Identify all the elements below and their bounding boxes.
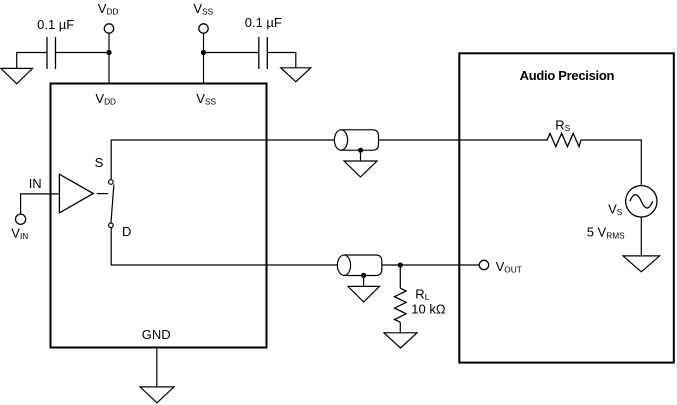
junction at RL tap: [398, 262, 403, 267]
junction on VDD: [106, 50, 111, 55]
coax cable 2 body: [344, 255, 382, 276]
wire: VIN input to buffer: [21, 194, 60, 214]
wire: C1 left plate to ground: [17, 53, 47, 69]
DUT box: [51, 84, 267, 348]
node VSS terminal circle: [199, 24, 208, 33]
ground for DUT GND pin wire: [156, 348, 158, 387]
coax cable 2 end ellipse: [337, 255, 350, 275]
resistor RL 10 kOhm: [395, 288, 407, 322]
switch D contact circle: [109, 223, 114, 228]
wire: RL to ground: [399, 322, 401, 333]
junction on VSS: [201, 50, 206, 55]
wire: VS to ground: [640, 217, 642, 256]
wire: VDD vertical from terminal into DUT: [108, 33, 110, 83]
dashed link buffer to switch: [97, 193, 109, 195]
switch S contact circle: [109, 180, 114, 185]
node VDD terminal circle: [104, 24, 113, 33]
node VIN terminal circle: [16, 214, 26, 224]
ground for coax 1: [344, 161, 377, 177]
wire: coax 2 shield to ground: [363, 278, 365, 286]
junction on coax 1 shield: [358, 148, 363, 153]
capacitor C1 0.1 uF plates: [47, 37, 56, 69]
buffer amplifier inside DUT: [59, 174, 93, 213]
resistor RS in series (white mask under zigzag): [548, 134, 581, 147]
svg-text:0.1 µF: 0.1 µF: [37, 17, 74, 32]
coax cable 1 end ellipse: [334, 130, 347, 150]
switch arm: [111, 184, 114, 222]
source VS sine generator: [626, 186, 657, 217]
wire: switch D down and right to coax 2 (lower net): [111, 228, 479, 265]
wire: VSS vertical from terminal into DUT: [203, 33, 205, 83]
svg-text:10 kΩ: 10 kΩ: [411, 301, 446, 316]
Audio Precision box: [459, 53, 674, 362]
wire: coax 1 shield to ground: [360, 153, 362, 161]
wire: C2 right plate to ground: [267, 53, 296, 68]
svg-text:GND: GND: [142, 327, 171, 342]
capacitor C2 0.1 uF plates: [259, 37, 268, 69]
wire: junction down to RL: [399, 265, 401, 288]
ground for RL: [384, 333, 417, 348]
svg-text:D: D: [122, 224, 131, 239]
ground for DUT: [140, 387, 174, 403]
ground for C1: [1, 68, 33, 83]
ground for VS: [623, 256, 660, 272]
svg-text:S: S: [95, 155, 104, 170]
svg-text:0.1 µF: 0.1 µF: [245, 15, 282, 30]
svg-text:Audio Precision: Audio Precision: [520, 68, 615, 83]
ground for coax 2: [348, 286, 379, 302]
ground for C2: [281, 68, 311, 82]
coax cable 1 body: [341, 130, 379, 150]
wire: C1 right plate to VDD junction: [56, 52, 110, 54]
svg-text:IN: IN: [29, 176, 42, 191]
wire: VSS junction to C2 left plate: [204, 52, 259, 54]
junction on coax 2 shield: [361, 273, 366, 278]
wire: switch S up and right to coax 1 (upper net): [111, 140, 641, 186]
node VOUT terminal circle: [479, 260, 488, 269]
